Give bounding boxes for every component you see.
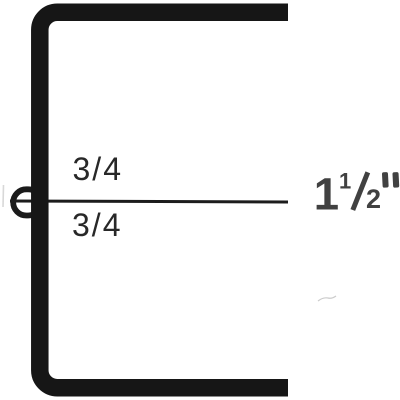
dimension label : inch marks [382, 172, 399, 188]
faint scan smudge [318, 296, 336, 301]
frame outline (rounded rectangle, cropped at right) [40, 12, 360, 387]
tab / mounting clip on left edge [13, 189, 41, 215]
svg-text:1: 1 [314, 169, 339, 220]
dimension centerline [10, 201, 288, 202]
svg-text:2: 2 [366, 184, 381, 214]
svg-text:1: 1 [339, 169, 351, 194]
dimension label : fraction slash [353, 172, 368, 210]
faint scan streak at left edge [2, 185, 5, 207]
svg-text:3/4: 3/4 [72, 207, 122, 243]
svg-text:3/4: 3/4 [73, 151, 123, 187]
